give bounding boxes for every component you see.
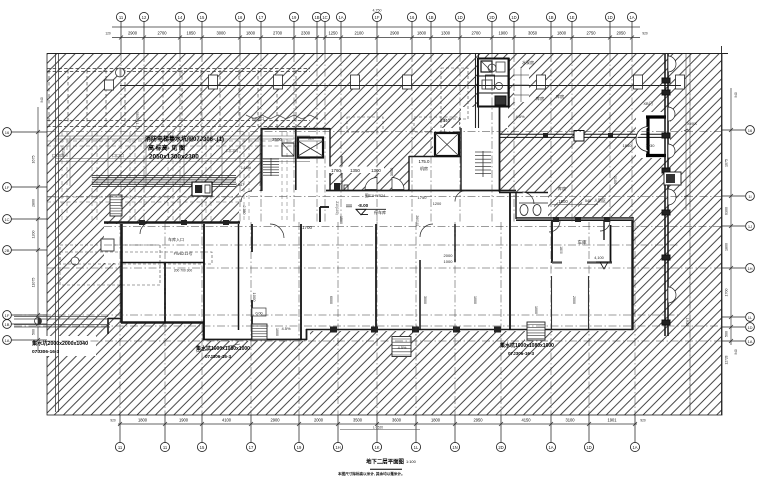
wedge dim texts: [328, 167, 384, 174]
svg-text:库房: 库房: [536, 95, 544, 102]
svg-text:16: 16: [5, 130, 10, 135]
dark stubs below wedge: [334, 183, 340, 190]
svg-text:2100: 2100: [354, 31, 364, 36]
svg-text:2050: 2050: [616, 31, 626, 36]
svg-text:520: 520: [308, 137, 314, 141]
svg-text:2900: 2900: [270, 418, 280, 423]
svg-text:-8.00: -8.00: [358, 203, 369, 208]
svg-text:X#XX: X#XX: [687, 121, 698, 126]
beam ladder rows: [56, 135, 310, 137]
bottom grid stems: [119, 415, 121, 442]
svg-text:1760: 1760: [331, 168, 341, 173]
svg-text:1000: 1000: [275, 328, 279, 336]
right core dark walls: [646, 115, 666, 118]
excavation boundary: [47, 54, 722, 416]
inner room right apartment: [551, 221, 553, 263]
svg-text:1A: 1A: [5, 338, 10, 343]
right wall fittings: [662, 78, 670, 83]
svg-text:6000: 6000: [329, 296, 333, 304]
svg-text:1H: 1H: [335, 445, 340, 450]
svg-text:人防区: 人防区: [594, 197, 606, 203]
right dimension line: [730, 88, 732, 345]
top edge line of excavation: [47, 53, 728, 55]
svg-text:车库入口: 车库入口: [168, 236, 184, 242]
svg-text:2700: 2700: [157, 31, 167, 36]
outdoor stair: [392, 337, 411, 357]
svg-text:4,100: 4,100: [594, 256, 604, 260]
svg-text:6300: 6300: [725, 207, 729, 215]
corridor arc: [241, 191, 252, 202]
svg-text:口口口: 口口口: [252, 116, 264, 121]
svg-text:1:100: 1:100: [406, 459, 417, 464]
svg-text:920: 920: [640, 419, 646, 423]
svg-text:200 700 300: 200 700 300: [174, 269, 193, 273]
svg-text:1200: 1200: [433, 202, 441, 206]
vertical line x690: [689, 54, 691, 415]
column stubs bottom wall: [330, 327, 337, 333]
svg-text:12: 12: [142, 15, 147, 20]
svg-text:3000: 3000: [216, 31, 226, 36]
svg-text:停车库: 停车库: [374, 209, 386, 215]
svg-text:1750: 1750: [418, 195, 428, 200]
svg-text:1200: 1200: [32, 231, 36, 239]
svg-text:1800: 1800: [138, 418, 148, 423]
partition walls lower band: [164, 263, 166, 323]
svg-text:19: 19: [292, 15, 297, 20]
svg-text:1H: 1H: [747, 266, 752, 271]
svg-text:4.5%: 4.5%: [398, 346, 407, 350]
column stubs top walls: [139, 220, 145, 225]
door arcs: [270, 224, 284, 238]
svg-text:集水坑2000x2000x1040: 集水坑2000x2000x1040: [31, 339, 88, 347]
svg-text:1930: 1930: [646, 143, 656, 148]
svg-text:1930: 1930: [685, 318, 689, 326]
svg-text:2100: 2100: [613, 176, 617, 184]
wedge door arcs: [365, 178, 377, 190]
stair block UL outline: [260, 128, 262, 191]
svg-text:1J: 1J: [748, 224, 752, 229]
svg-text:1800: 1800: [431, 418, 441, 423]
sump wall corner: [108, 318, 122, 320]
svg-text:库房: 库房: [558, 185, 566, 192]
horizontal axis lines: [47, 131, 722, 133]
axis bubble sump area: [71, 257, 79, 265]
svg-text:2800(41.4): 2800(41.4): [135, 111, 139, 128]
svg-text:1800: 1800: [557, 31, 567, 36]
bottom dimension lines: [118, 423, 637, 425]
pump room walls: [478, 59, 509, 107]
machine room walls: [408, 156, 410, 190]
svg-text:1B: 1B: [5, 322, 10, 327]
svg-text:1C: 1C: [322, 15, 327, 20]
svg-text:2540: 2540: [440, 118, 451, 123]
svg-text:14: 14: [178, 15, 183, 20]
svg-text:1700: 1700: [725, 289, 729, 297]
svg-text:2D: 2D: [489, 15, 494, 20]
core east wall: [499, 107, 501, 192]
column box x105: [105, 80, 114, 90]
svg-text:540: 540: [585, 199, 591, 203]
right wall door arcs: [668, 56, 676, 72]
svg-text:16: 16: [748, 128, 753, 133]
svg-text:3100: 3100: [565, 418, 575, 423]
svg-text:1D: 1D: [511, 15, 516, 20]
svg-text:4.5%: 4.5%: [515, 114, 525, 119]
svg-text:1675: 1675: [32, 156, 36, 164]
svg-text:1A: 1A: [548, 445, 553, 450]
svg-text:FW6211号: FW6211号: [174, 250, 193, 256]
svg-text:3000: 3000: [423, 296, 427, 304]
svg-text:2000: 2000: [572, 296, 576, 304]
dashed pit outline near axis 19: [441, 68, 468, 119]
svg-text:1A: 1A: [748, 339, 753, 344]
svg-text:3050: 3050: [528, 31, 538, 36]
svg-text:1500: 1500: [339, 216, 343, 224]
svg-text:19: 19: [297, 445, 302, 450]
svg-text:水泵房: 水泵房: [522, 59, 534, 65]
svg-text:16: 16: [410, 15, 415, 20]
wall step up: [306, 329, 308, 340]
svg-text:1D: 1D: [586, 445, 591, 450]
toilet fixtures: [520, 205, 528, 216]
dark cluster ramp entry: [192, 182, 212, 196]
svg-text:消防电梯集水坑间07J306-.(1): 消防电梯集水坑间07J306-.(1): [145, 135, 224, 143]
top grid stems: [120, 22, 122, 55]
svg-text:11075: 11075: [32, 278, 36, 288]
zigzag break line: [246, 115, 318, 119]
svg-text:2700: 2700: [471, 31, 481, 36]
svg-text:1900: 1900: [179, 418, 189, 423]
svg-text:2900: 2900: [128, 31, 138, 36]
svg-text:1I: 1I: [748, 194, 751, 199]
svg-text:3500: 3500: [353, 418, 363, 423]
svg-text:1850: 1850: [186, 31, 196, 36]
svg-text:1B: 1B: [548, 15, 553, 20]
dim line 1500/540: [552, 204, 598, 206]
svg-text:车库: 车库: [578, 239, 587, 246]
svg-text:集水坑1000x1080x1000: 集水坑1000x1080x1000: [499, 342, 554, 349]
stair inner room: [282, 143, 294, 156]
niche top wall: [499, 192, 548, 194]
svg-text:1D: 1D: [747, 325, 752, 330]
svg-text:1700: 1700: [302, 225, 313, 230]
small stair left area: [110, 195, 122, 216]
svg-text:4150: 4150: [521, 418, 531, 423]
svg-text:1B: 1B: [428, 15, 433, 20]
svg-text:1300: 1300: [441, 31, 451, 36]
svg-text:口口口: 口口口: [112, 153, 124, 158]
svg-text:1250: 1250: [328, 31, 338, 36]
svg-text:920: 920: [642, 32, 648, 36]
wall step down: [203, 322, 205, 340]
corridor level symbol: [356, 208, 386, 210]
svg-text:940: 940: [734, 349, 738, 355]
svg-text:2900: 2900: [390, 31, 400, 36]
svg-text:1000: 1000: [534, 306, 538, 314]
svg-text:1900: 1900: [498, 31, 508, 36]
wall bottom long: [306, 329, 633, 331]
svg-text:2000: 2000: [314, 418, 324, 423]
svg-text:1F: 1F: [5, 185, 10, 190]
svg-text:1L: 1L: [414, 445, 419, 450]
vertical axis lines: [120, 54, 122, 222]
svg-text:1K: 1K: [374, 445, 379, 450]
svg-text:3050: 3050: [390, 168, 394, 176]
buried corridor wall double line: [500, 133, 668, 135]
dashed panel rows upper band: [47, 68, 310, 70]
svg-text:地下二层平面图: 地下二层平面图: [366, 458, 404, 466]
svg-text:2.350: 2.350: [242, 206, 246, 215]
beam band dark left: [92, 175, 236, 177]
svg-text:12728: 12728: [725, 355, 729, 364]
retaining wall lines left: [55, 54, 57, 412]
svg-text:2B: 2B: [5, 248, 10, 253]
wall bottom left apartment: [121, 321, 204, 324]
svg-text:940: 940: [40, 97, 44, 103]
svg-text:2D: 2D: [498, 445, 503, 450]
band stair right: [527, 322, 545, 340]
svg-text:15: 15: [200, 15, 205, 20]
svg-text:1L: 1L: [748, 315, 753, 320]
svg-text:1901: 1901: [607, 418, 617, 423]
corridor top wall: [326, 190, 516, 192]
right long wall: [664, 54, 666, 336]
svg-text:4.5%: 4.5%: [281, 326, 291, 331]
svg-text:1B: 1B: [314, 15, 319, 20]
wall x330: [329, 128, 331, 191]
svg-text:1800: 1800: [725, 243, 729, 251]
corridor left dark corner: [320, 206, 329, 208]
svg-text:3600: 3600: [392, 418, 402, 423]
svg-text:1800: 1800: [559, 246, 563, 254]
stair UL risers: [263, 158, 279, 160]
inner dim line right: [685, 54, 687, 210]
svg-text:1000: 1000: [252, 293, 257, 303]
svg-text:1847: 1847: [236, 183, 244, 187]
svg-text:高 标高- 见 图: 高 标高- 见 图: [148, 144, 185, 152]
svg-text:本图尺寸除标高以米计, 其余均以毫米计。: 本图尺寸除标高以米计, 其余均以毫米计。: [337, 471, 405, 476]
svg-text:1350: 1350: [350, 168, 360, 173]
svg-text:1000: 1000: [473, 296, 477, 304]
right core door arcs: [636, 127, 649, 140]
top grid circles: [116, 12, 125, 21]
svg-text:1N: 1N: [452, 445, 457, 450]
svg-text:2300: 2300: [301, 31, 311, 36]
svg-text:1A: 1A: [338, 15, 343, 20]
svg-text:图E1HYB24: 图E1HYB24: [365, 194, 385, 198]
svg-text:07J306-16-3: 07J306-16-3: [32, 349, 60, 355]
svg-text:3150: 3150: [61, 148, 65, 156]
svg-text:4100: 4100: [222, 418, 232, 423]
svg-text:2950: 2950: [473, 418, 483, 423]
svg-text:2800: 2800: [32, 199, 36, 207]
stair 2 risers: [475, 151, 491, 153]
elevator shaft UL walls: [298, 138, 323, 158]
svg-text:机房: 机房: [420, 165, 428, 171]
svg-text:1.15%: 1.15%: [241, 166, 252, 170]
column marker squares: [209, 75, 218, 89]
long beam line y85: [120, 85, 681, 87]
svg-text:1D: 1D: [607, 15, 612, 20]
svg-text:11: 11: [118, 445, 123, 450]
svg-text:4,750: 4,750: [373, 9, 382, 13]
corridor wall x516: [515, 192, 517, 219]
svg-text:2700: 2700: [273, 31, 283, 36]
right grid circles: [722, 129, 745, 131]
svg-text:库房: 库房: [556, 93, 564, 100]
wall top left apartment: [104, 221, 240, 223]
right edge line of excavation: [721, 46, 723, 415]
svg-text:1500: 1500: [558, 199, 568, 204]
svg-text:15: 15: [200, 445, 205, 450]
hatched ground field: [47, 54, 722, 416]
svg-text:1675: 1675: [725, 159, 729, 167]
svg-text:1F: 1F: [375, 15, 380, 20]
elevation box 0.00: [252, 308, 266, 316]
svg-text:17: 17: [249, 445, 254, 450]
svg-text:2000: 2000: [444, 253, 454, 258]
svg-text:1A: 1A: [632, 445, 637, 450]
notch box: [101, 239, 114, 251]
bottom grid circles: [115, 442, 124, 451]
svg-text:120: 120: [105, 32, 111, 36]
left dimension line: [37, 107, 39, 352]
svg-text:1800: 1800: [417, 31, 427, 36]
white room punches: [261, 128, 330, 191]
svg-text:500: 500: [725, 331, 729, 337]
svg-text:1C: 1C: [4, 217, 9, 222]
svg-text:1000: 1000: [444, 259, 454, 264]
left grid circles: [12, 131, 48, 133]
svg-text:07J306-16-3: 07J306-16-3: [508, 351, 534, 356]
svg-text:175.0: 175.0: [419, 159, 431, 164]
svg-text:1F: 1F: [5, 313, 10, 318]
svg-text:16: 16: [238, 15, 243, 20]
axis bubble in drawing: [116, 68, 125, 77]
svg-text:260101: 260101: [415, 215, 419, 226]
svg-text:1D: 1D: [457, 15, 462, 20]
svg-text:XB门: XB门: [643, 100, 652, 106]
wall right room top: [516, 217, 633, 220]
svg-text:500: 500: [32, 329, 36, 335]
wall right room right: [631, 217, 633, 330]
level symbol: [35, 318, 42, 325]
svg-text:2500: 2500: [272, 137, 282, 142]
svg-text:2050x1300x2300: 2050x1300x2300: [149, 154, 199, 161]
top dimension lines: [112, 26, 640, 28]
band stair left: [252, 324, 267, 340]
svg-text:1E: 1E: [569, 15, 574, 20]
svg-text:集水坑1000x1080x1000: 集水坑1000x1080x1000: [195, 345, 250, 352]
svg-text:1300: 1300: [371, 168, 381, 173]
svg-text:210(100): 210(100): [335, 201, 339, 215]
svg-text:11: 11: [119, 15, 124, 20]
elevator shaft 2: [435, 133, 459, 156]
square on corridor wall: [574, 131, 584, 142]
pit symbol right bottom: [664, 172, 681, 185]
wall bottom middle: [203, 339, 307, 341]
svg-text:L-1520: L-1520: [373, 426, 383, 430]
svg-text:1A: 1A: [629, 15, 634, 20]
svg-text:07J306-16-3: 07J306-16-3: [205, 354, 231, 359]
sump leader lines: [14, 316, 108, 318]
svg-text:920: 920: [110, 419, 116, 423]
svg-text:1800: 1800: [246, 31, 256, 36]
svg-text:17: 17: [259, 15, 264, 20]
svg-text:11: 11: [163, 445, 168, 450]
wall left perimeter: [120, 224, 123, 323]
svg-text:口口口: 口口口: [226, 148, 238, 153]
dashed beam boxes center top: [347, 117, 383, 132]
svg-text:2750: 2750: [586, 31, 596, 36]
svg-text:1850: 1850: [623, 143, 633, 148]
axis wall x476: [475, 54, 477, 128]
svg-text:940: 940: [734, 92, 738, 98]
